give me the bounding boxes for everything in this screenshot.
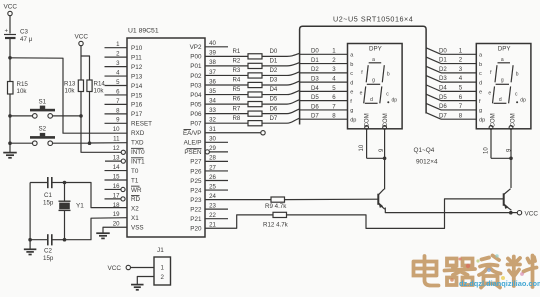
wire: R9 net pin24 to Q1 base — [205, 197, 378, 202]
wire: D6 into bus (left fan) — [287, 109, 300, 114]
svg-text:D1: D1 — [311, 57, 319, 64]
wire: D5 bus to DPY2 pin 6 (right fan) — [426, 94, 476, 101]
pin names right side — [183, 44, 202, 232]
svg-text:40: 40 — [209, 40, 216, 47]
svg-text:e: e — [350, 90, 353, 96]
svg-text:D4: D4 — [311, 85, 319, 92]
wire: pin 5 stub — [105, 85, 128, 87]
wire: C1 rail to X2 (pin 18) — [65, 183, 128, 208]
wire: data bus (inverted U) — [300, 26, 427, 124]
svg-text:P13: P13 — [131, 73, 143, 80]
wire: ground rail S1->S2 segment — [9, 116, 11, 143]
svg-text:P20: P20 — [190, 226, 202, 233]
svg-text:e: e — [360, 91, 363, 97]
svg-text:R1: R1 — [233, 48, 241, 55]
node: Y1 top / C1 — [63, 181, 67, 185]
svg-text:37: 37 — [209, 69, 216, 76]
svg-text:P15: P15 — [131, 92, 143, 99]
node: DPY2 COM junction — [509, 157, 513, 161]
wire: pin 23 stub — [205, 208, 228, 210]
svg-text:R3: R3 — [233, 67, 241, 74]
DPY2 pin letters — [350, 53, 356, 124]
pin names left side — [131, 45, 152, 232]
wire: D1 into bus (left fan) — [287, 63, 300, 66]
wire: D0 bus to DPY1 pin 1 — [300, 48, 348, 55]
svg-text:c: c — [350, 71, 353, 77]
wire: D5 into bus (left fan) — [287, 100, 300, 104]
svg-text:D6: D6 — [270, 105, 278, 112]
pin numbers left side — [113, 41, 120, 228]
svg-text:10k: 10k — [94, 88, 105, 95]
svg-text:26: 26 — [209, 174, 216, 181]
svg-text:P07: P07 — [190, 121, 202, 128]
svg-text:24: 24 — [209, 193, 216, 200]
svg-text:D7: D7 — [311, 113, 319, 120]
svg-text:30: 30 — [209, 136, 216, 143]
svg-text:EA/VP: EA/VP — [183, 130, 202, 137]
wire: D2 bus to DPY2 pin 3 (right fan) — [426, 66, 476, 73]
svg-text:S1: S1 — [39, 99, 47, 106]
svg-text:DPY: DPY — [369, 46, 382, 53]
node: R13 bottom / S1 — [79, 114, 83, 118]
svg-text:R6: R6 — [233, 96, 241, 103]
svg-text:g: g — [479, 108, 482, 114]
wire: pin 2 stub — [105, 56, 128, 58]
power VCC (right) — [511, 211, 539, 218]
wire: DPY1 COM to Q1 collector — [384, 158, 386, 189]
svg-text:U2~U5 SRT105016×4: U2~U5 SRT105016×4 — [333, 15, 413, 24]
svg-text:b: b — [350, 62, 353, 68]
wire: pin 6 stub — [105, 94, 128, 96]
wire: D1 bus to DPY1 pin 2 — [300, 57, 348, 64]
switch S2 — [30, 126, 55, 146]
DPY1 COM pads — [365, 126, 369, 130]
svg-text:D2: D2 — [311, 66, 319, 73]
svg-text:D6: D6 — [311, 103, 319, 110]
svg-text:13: 13 — [113, 155, 120, 162]
wire: D7 into bus (left fan) — [287, 118, 300, 123]
svg-text:VCC: VCC — [108, 265, 122, 272]
svg-text:14: 14 — [113, 164, 120, 171]
wire: J1 pin2 to ground — [137, 277, 154, 285]
svg-text:D5: D5 — [270, 96, 278, 103]
svg-text:+: + — [5, 29, 9, 35]
wire: D3 bus to DPY1 pin 4 — [300, 76, 348, 83]
resistor R7 — [205, 105, 287, 116]
svg-text:P02: P02 — [190, 73, 202, 80]
svg-text:D4: D4 — [439, 84, 447, 91]
svg-text:32: 32 — [209, 117, 216, 124]
pin 16 stub with bubble (WR) — [105, 188, 121, 190]
svg-text:21: 21 — [209, 222, 216, 229]
connector J1 — [154, 247, 171, 285]
svg-text:T1: T1 — [131, 177, 139, 184]
svg-text:J1: J1 — [157, 247, 164, 254]
svg-text:R5: R5 — [233, 86, 241, 93]
svg-text:15p: 15p — [43, 200, 54, 207]
wire: D5 bus to DPY1 pin 6 — [300, 94, 348, 101]
pin 13 stub with bubble (INT1) — [105, 160, 121, 162]
svg-text:P11: P11 — [131, 54, 142, 61]
svg-text:P25: P25 — [190, 178, 202, 185]
pin 31 EA/VP stub with bubble — [205, 132, 261, 134]
wire: pin 8 stub — [105, 113, 128, 115]
svg-text:10: 10 — [484, 147, 490, 154]
svg-text:C2: C2 — [44, 248, 52, 255]
svg-text:D2: D2 — [439, 66, 447, 73]
wire: D3 bus to DPY2 pin 4 (right fan) — [426, 75, 476, 82]
svg-text:22: 22 — [209, 212, 216, 219]
node: C3/R15/RESET junction — [8, 56, 12, 60]
capacitor C2 15p — [30, 234, 64, 262]
svg-text:VCC: VCC — [525, 211, 539, 218]
wire: S2 row to pin 11 (TXD) — [10, 142, 33, 144]
svg-text:D3: D3 — [439, 75, 447, 82]
resistor R13 10k — [64, 56, 84, 116]
wire: D2 into bus (left fan) — [287, 72, 300, 76]
transistor Q1 (9012 PNP) — [378, 189, 385, 209]
crystal Y1 — [59, 183, 85, 240]
wire: D0 bus to DPY2 pin 1 (right fan) — [426, 47, 476, 54]
svg-text:INT1: INT1 — [131, 158, 145, 165]
7-seg display U5 DPY body — [476, 44, 531, 129]
svg-text:P24: P24 — [190, 187, 202, 194]
wire: D6 bus to DPY2 pin 7 (right fan) — [426, 103, 476, 110]
transistor Q2 (9012 PNP) — [504, 189, 512, 211]
svg-text:DPY: DPY — [498, 46, 511, 53]
power VCC (J1) — [108, 265, 155, 272]
svg-text:dz.dqzl.dianqiziliao.com: dz.dqzl.dianqiziliao.com — [459, 279, 540, 288]
svg-text:20: 20 — [113, 221, 120, 228]
svg-text:Q1~Q4: Q1~Q4 — [414, 147, 435, 154]
power VCC (top-left) — [4, 4, 18, 34]
svg-text:1: 1 — [161, 265, 165, 272]
svg-text:b: b — [387, 72, 390, 78]
svg-text:P10: P10 — [131, 45, 143, 52]
svg-text:T0: T0 — [131, 168, 139, 175]
node on rail at S1 row — [8, 114, 12, 118]
svg-text:D1: D1 — [270, 58, 278, 65]
svg-text:23: 23 — [209, 202, 216, 209]
capacitor C1 15p — [30, 177, 64, 207]
svg-text:TXD: TXD — [131, 140, 144, 147]
ground (crystal) — [24, 240, 36, 255]
svg-text:25: 25 — [209, 183, 216, 190]
pin numbers right side — [209, 40, 216, 228]
resistor R3 — [205, 67, 287, 78]
svg-text:P14: P14 — [131, 83, 143, 90]
resistor R1 — [205, 48, 287, 59]
wire: D6 bus to DPY1 pin 7 — [300, 103, 348, 110]
wire: pin 26 stub — [205, 180, 228, 182]
svg-text:D3: D3 — [311, 76, 319, 83]
wire: junction to RESET net (to pin 10 row) — [10, 58, 127, 133]
svg-text:10k: 10k — [65, 88, 76, 95]
wire: R12 net pin21 via jogs to Q2 base — [205, 199, 504, 229]
node on rail at S2 row — [8, 141, 12, 145]
svg-text:D5: D5 — [311, 94, 319, 101]
svg-text:38: 38 — [209, 59, 216, 66]
wire: D0 into bus (left fan) — [287, 53, 300, 56]
svg-text:R9 4.7k: R9 4.7k — [265, 203, 287, 210]
7-seg display U2 DPY body — [348, 44, 403, 129]
svg-text:dp: dp — [350, 117, 356, 123]
wire: DPY2 COM to Q2 collector — [510, 158, 512, 188]
svg-text:a: a — [372, 57, 375, 63]
svg-text:10k: 10k — [17, 88, 28, 95]
svg-text:R15: R15 — [17, 81, 29, 88]
svg-text:Y1: Y1 — [76, 203, 84, 210]
wire: DPY1 COM pin 10 — [366, 129, 368, 158]
svg-text:19: 19 — [113, 211, 120, 218]
svg-text:10: 10 — [359, 144, 365, 151]
svg-text:P03: P03 — [190, 82, 202, 89]
svg-text:C1: C1 — [44, 192, 52, 199]
svg-text:P12: P12 — [131, 64, 143, 71]
svg-text:dp: dp — [479, 117, 485, 123]
svg-text:15: 15 — [113, 173, 120, 180]
svg-text:b: b — [516, 72, 519, 78]
svg-text:35: 35 — [209, 88, 216, 95]
svg-text:S2: S2 — [39, 126, 47, 133]
resistor R4 — [205, 77, 287, 88]
wire: pin 15 stub — [105, 179, 128, 181]
wire: D4 into bus (left fan) — [287, 90, 300, 94]
ground (VSS) — [96, 232, 110, 234]
U1 89C51 body — [127, 38, 205, 237]
ground (J1) — [131, 284, 144, 286]
svg-text:P05: P05 — [190, 101, 202, 108]
resistor R15 10k — [8, 58, 29, 116]
svg-text:g: g — [372, 78, 375, 84]
switch S1 — [30, 99, 55, 119]
pin 17 stub with bubble (RD) — [105, 198, 121, 200]
wire: D4 bus to DPY2 pin 5 (right fan) — [426, 84, 476, 91]
svg-text:31: 31 — [209, 126, 216, 133]
svg-text:d: d — [370, 97, 373, 103]
svg-text:D0: D0 — [311, 48, 319, 55]
wire: pin 14 stub — [105, 170, 128, 172]
wire: pin 25 stub — [205, 189, 228, 191]
svg-text:39: 39 — [209, 50, 216, 57]
svg-text:36: 36 — [209, 78, 216, 85]
node: DPY1 COM junction — [383, 157, 387, 161]
svg-text:D2: D2 — [270, 67, 278, 74]
svg-text:d: d — [350, 80, 353, 86]
wire: pin 1 stub — [105, 47, 128, 49]
svg-text:11: 11 — [113, 136, 120, 143]
resistor R8 — [205, 115, 287, 126]
svg-text:P23: P23 — [190, 197, 202, 204]
svg-text:X2: X2 — [131, 206, 139, 213]
ground (left rail) — [3, 143, 17, 158]
svg-text:D1: D1 — [439, 57, 447, 64]
DPY2 COM labels — [491, 113, 517, 127]
wire: pin 40 stub — [205, 46, 228, 48]
wire: emitter rail to VCC — [385, 208, 511, 213]
wire: D7 bus to DPY2 pin 8 (right fan) — [426, 112, 476, 119]
svg-text:D5: D5 — [439, 94, 447, 101]
svg-text:D6: D6 — [439, 103, 447, 110]
svg-text:R13: R13 — [64, 81, 76, 88]
svg-text:10: 10 — [113, 126, 120, 133]
svg-text:dp: dp — [520, 98, 526, 104]
node: left rail / C2 — [28, 238, 32, 242]
svg-text:RXD: RXD — [131, 130, 145, 137]
svg-text:27: 27 — [209, 164, 216, 171]
svg-text:d: d — [499, 97, 502, 103]
watermark (decorative logo) — [414, 256, 537, 288]
wire: D7 bus to DPY1 pin 8 — [300, 113, 348, 120]
svg-text:18: 18 — [113, 202, 120, 209]
svg-text:d: d — [479, 80, 482, 86]
svg-text:R7: R7 — [233, 105, 241, 112]
svg-text:16: 16 — [113, 183, 120, 190]
svg-text:g: g — [501, 78, 504, 84]
svg-text:WR: WR — [131, 187, 142, 194]
resistor R14 10k — [87, 80, 106, 143]
svg-text:47 μ: 47 μ — [20, 36, 33, 43]
svg-text:g: g — [350, 108, 353, 114]
svg-text:VP2: VP2 — [190, 44, 202, 51]
svg-text:P17: P17 — [131, 111, 143, 118]
svg-text:R12 4.7k: R12 4.7k — [263, 222, 289, 229]
svg-text:VCC: VCC — [75, 34, 89, 41]
DPY5 seven-segment glyph — [488, 57, 526, 104]
svg-text:9012×4: 9012×4 — [416, 159, 438, 166]
svg-text:R14: R14 — [94, 81, 106, 88]
svg-text:29: 29 — [209, 145, 216, 152]
svg-text:C3: C3 — [20, 29, 28, 36]
wire: D4 bus to DPY1 pin 5 — [300, 85, 348, 92]
svg-text:e: e — [488, 91, 491, 97]
svg-text:D7: D7 — [439, 112, 447, 119]
resistor R6 — [205, 96, 287, 107]
svg-text:P27: P27 — [190, 159, 202, 166]
DPY2 COM pads — [489, 126, 493, 130]
svg-text:12: 12 — [113, 145, 120, 152]
wire: DPY1 COM pin 9 joining bar — [367, 157, 385, 159]
wire: pin 27 stub — [205, 170, 228, 172]
DPY1 COM labels — [364, 113, 389, 127]
node: Y1 bottom / C2 — [63, 238, 67, 242]
wire: pin 3 stub — [105, 66, 128, 68]
svg-text:P21: P21 — [190, 216, 202, 223]
svg-text:D0: D0 — [270, 48, 278, 55]
svg-text:D7: D7 — [270, 115, 278, 122]
wire: pin 30 stub — [205, 141, 228, 143]
wire: C2 rail to X1 (pin 19) — [65, 218, 128, 240]
svg-text:X1: X1 — [131, 215, 139, 222]
svg-text:R8: R8 — [233, 115, 241, 122]
svg-text:P04: P04 — [190, 92, 202, 99]
wire: pin 4 stub — [105, 75, 128, 77]
node: R14 bottom / S2 / TXD — [88, 141, 92, 145]
wire: crystal left rail — [29, 183, 31, 240]
svg-text:P16: P16 — [131, 102, 143, 109]
wire: pin 7 stub — [105, 103, 128, 105]
svg-text:VSS: VSS — [131, 225, 144, 232]
svg-text:P00: P00 — [190, 54, 202, 61]
wire: D3 into bus (left fan) — [287, 81, 300, 85]
wire: VSS (pin 20) to ground — [103, 227, 127, 232]
svg-text:R4: R4 — [233, 77, 241, 84]
svg-text:17: 17 — [113, 192, 120, 199]
resistor R5 — [205, 86, 287, 97]
svg-text:34: 34 — [209, 97, 216, 104]
wire: S1 row — [10, 115, 33, 117]
svg-text:D0: D0 — [439, 47, 447, 54]
svg-text:e: e — [479, 90, 482, 96]
wire: pin 22 stub — [205, 218, 228, 220]
wire: D2 bus to DPY1 pin 3 — [300, 66, 348, 73]
wire: pin 28 stub — [205, 160, 228, 162]
svg-text:P26: P26 — [190, 168, 202, 175]
DPY2 seven-segment glyph — [360, 57, 398, 104]
svg-text:2: 2 — [161, 274, 165, 281]
capacitor C3 47u — [4, 29, 33, 58]
svg-text:15p: 15p — [43, 255, 54, 262]
wire: DPY2 COM pin 10 — [490, 129, 492, 158]
DPY5 pin letters — [479, 53, 485, 124]
pin 29 PSEN bubble and stub — [205, 150, 209, 154]
pin 12 bubble — [121, 150, 125, 154]
power VCC (above R13/R14) — [75, 34, 89, 57]
wire: S1/R13 node down to INT0 (pin 12) — [81, 116, 121, 152]
svg-text:dp: dp — [392, 98, 398, 104]
svg-text:RD: RD — [131, 196, 141, 203]
wire: pin 9 stub — [105, 122, 128, 124]
svg-text:P22: P22 — [190, 206, 202, 213]
svg-text:PSEN: PSEN — [184, 149, 202, 156]
svg-text:INT0: INT0 — [131, 149, 145, 156]
resistor R2 — [205, 58, 287, 69]
wire: D1 bus to DPY2 pin 2 (right fan) — [426, 57, 476, 64]
node: Q2 emitter / rail — [509, 211, 513, 215]
svg-text:R2: R2 — [233, 58, 241, 65]
svg-text:P01: P01 — [190, 63, 202, 70]
wire: DPY2 COM pin 9 joining bar — [491, 157, 511, 159]
wire: VCC branch to R14 — [81, 56, 90, 80]
svg-text:RESET: RESET — [131, 121, 152, 128]
svg-text:33: 33 — [209, 107, 216, 114]
svg-text:D3: D3 — [270, 77, 278, 84]
svg-text:c: c — [479, 71, 482, 77]
svg-text:b: b — [479, 62, 482, 68]
svg-text:a: a — [501, 57, 504, 63]
svg-text:U1 89C51: U1 89C51 — [128, 28, 159, 35]
svg-text:VCC: VCC — [4, 4, 18, 11]
svg-text:D4: D4 — [270, 86, 278, 93]
svg-text:28: 28 — [209, 155, 216, 162]
svg-text:ALE/P: ALE/P — [184, 140, 202, 147]
svg-text:P06: P06 — [190, 111, 202, 118]
